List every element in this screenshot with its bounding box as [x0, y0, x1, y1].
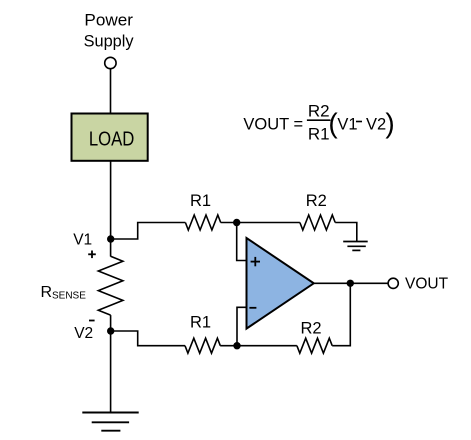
svg-text:R2: R2: [300, 320, 321, 338]
resistor RSENSE: [98, 256, 123, 315]
svg-text:R1: R1: [190, 192, 211, 210]
wire terminal to LOAD: [110, 69, 112, 114]
node B inverting junction: [233, 342, 240, 349]
label RSENSE: [41, 284, 87, 302]
svg-text:R: R: [41, 284, 53, 301]
wire R1 bottom to node B: [220, 345, 237, 347]
op-amp U1: [247, 238, 314, 329]
node V1: [107, 235, 114, 242]
wire node A to R2 top: [237, 222, 300, 224]
ground small: [343, 242, 368, 251]
wire R2 top to ground small: [335, 223, 357, 242]
op-amp minus input marker: [249, 307, 256, 309]
resistor R1 top: [185, 215, 220, 230]
svg-text:R2: R2: [308, 102, 330, 121]
node A noninverting junction: [233, 219, 240, 226]
resistor R1 bottom: [185, 338, 220, 353]
wire output: [314, 282, 388, 284]
svg-text:Power: Power: [84, 11, 133, 30]
wire node B to R2 bottom: [237, 345, 297, 347]
svg-text:LOAD: LOAD: [89, 127, 135, 150]
svg-text:R1: R1: [308, 125, 330, 144]
polarity plus V1: [88, 251, 96, 259]
wire R1 top to node A: [221, 222, 237, 224]
svg-text:V1: V1: [73, 232, 92, 249]
node V2: [107, 327, 114, 334]
svg-text:V2: V2: [74, 325, 93, 342]
load block: [72, 114, 148, 161]
svg-text:): ): [385, 108, 394, 139]
polarity minus V2: [89, 320, 95, 322]
resistor R2 bottom: [297, 338, 332, 353]
svg-text:Supply: Supply: [84, 31, 134, 50]
equation VOUT = R2/R1 (V1-V2): [243, 102, 394, 144]
svg-text:R2: R2: [306, 192, 327, 210]
wire V2 to bottom R1: [111, 331, 185, 346]
wire LOAD to RSENSE: [110, 161, 112, 257]
wire V1 to top R1: [111, 223, 186, 240]
ground main: [82, 413, 138, 431]
svg-text:V2: V2: [366, 115, 386, 133]
terminal Power Supply: [105, 57, 116, 68]
svg-text:SENSE: SENSE: [52, 291, 86, 302]
label Power Supply: [84, 11, 134, 51]
wire RSENSE to V2: [110, 315, 112, 331]
svg-text:VOUT =: VOUT =: [243, 115, 303, 133]
wire V2 to ground: [110, 331, 112, 413]
terminal VOUT: [388, 278, 398, 288]
svg-text:V1: V1: [337, 115, 357, 133]
wire node B to minus input: [237, 307, 247, 345]
svg-text:VOUT: VOUT: [405, 275, 449, 292]
wire R2 bottom to output: [332, 283, 350, 345]
wire node A to plus input: [237, 223, 247, 261]
resistor R2 top: [300, 215, 335, 230]
node output junction: [347, 280, 354, 287]
op-amp plus input marker: [251, 257, 260, 266]
svg-text:R1: R1: [190, 314, 211, 332]
